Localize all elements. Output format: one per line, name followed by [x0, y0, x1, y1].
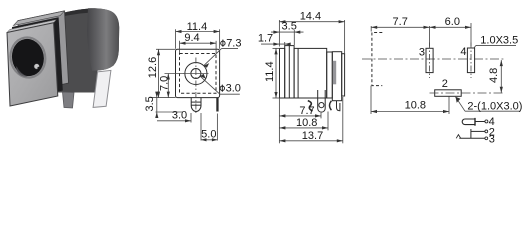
svg-text:7.3: 7.3 — [226, 37, 241, 49]
dim 10.8 side — [279, 112, 328, 131]
dim 12.6 — [147, 49, 175, 97]
svg-text:6.0: 6.0 — [445, 16, 460, 28]
dim 11.4 side — [264, 48, 279, 98]
dim 7.7 side — [279, 105, 321, 119]
svg-text:7.7: 7.7 — [299, 105, 314, 117]
3D photo: gap shadow plate — [12, 17, 63, 100]
3D photo: hole inner reflection — [16, 66, 28, 77]
svg-text:1.0X3.5: 1.0X3.5 — [480, 34, 518, 46]
side bottom extension line — [278, 98, 280, 143]
dim 7.0 — [159, 74, 184, 98]
dim 14.4 — [279, 10, 344, 53]
3D photo: flange top face strip — [13, 11, 64, 26]
side step block — [327, 52, 333, 98]
label 2-(1.0X3.0) — [456, 97, 523, 113]
dim 11.4 — [176, 21, 220, 49]
dim 9.4 — [180, 32, 217, 53]
svg-text:3.0: 3.0 — [226, 83, 241, 95]
svg-text:3.0: 3.0 — [172, 110, 187, 122]
3D photo: flange front plate — [7, 23, 58, 106]
side main body — [294, 48, 327, 98]
svg-text:4: 4 — [460, 46, 466, 58]
svg-text:3: 3 — [419, 47, 425, 59]
svg-text:1.7: 1.7 — [258, 33, 273, 45]
dim 7.7 bottom — [371, 16, 429, 46]
dim 1.7 — [258, 33, 291, 48]
svg-text:7.7: 7.7 — [393, 16, 408, 28]
pin 2 contact — [471, 126, 495, 138]
svg-text:10.8: 10.8 — [296, 117, 317, 129]
svg-text:7.0: 7.0 — [159, 76, 171, 91]
svg-text:3.5: 3.5 — [144, 96, 156, 111]
dim 5.0 — [201, 113, 217, 141]
3D photo: barrel shading — [87, 8, 119, 70]
svg-text:13.7: 13.7 — [302, 130, 323, 142]
front body outline — [176, 49, 220, 97]
front inner dashed body — [180, 54, 217, 94]
side small curl — [330, 101, 332, 110]
pin 3 switch — [456, 133, 495, 145]
svg-text:9.4: 9.4 — [184, 32, 199, 44]
pin 4 plug barrel — [462, 116, 495, 128]
svg-text:14.4: 14.4 — [300, 10, 321, 22]
3D photo: white solder pin — [93, 70, 111, 107]
side gray pin insert — [333, 61, 336, 85]
svg-text:11.4: 11.4 — [264, 61, 276, 82]
side bent tab curl — [308, 101, 313, 111]
dim 3.5 — [144, 92, 183, 118]
dim 3.0 pin width — [157, 110, 191, 123]
slot pin 3 — [419, 43, 433, 79]
3D photo: connector body — [20, 8, 119, 92]
side back block — [332, 52, 341, 101]
side front pin with hole — [318, 90, 326, 112]
3D photo: jack hole — [7, 35, 48, 81]
crosshair centerlines — [184, 58, 209, 114]
center pin circle — [191, 69, 201, 79]
slot pin 2 — [430, 78, 504, 97]
side back pin plate — [342, 54, 345, 96]
3D photo: body top face — [20, 8, 105, 26]
svg-text:12.6: 12.6 — [147, 57, 159, 78]
side bushing — [280, 48, 285, 98]
horizontal centerline — [362, 58, 503, 60]
3D photo: center pin tip — [34, 64, 40, 70]
dim 13.7 — [279, 97, 342, 143]
label dia 7.3 — [204, 37, 242, 67]
front center pin below — [191, 98, 201, 112]
side back hook pin — [337, 101, 340, 111]
slot pin 4 — [460, 43, 474, 79]
svg-text:4.8: 4.8 — [488, 68, 500, 83]
3D photo: plate top face — [7, 20, 56, 33]
svg-text:2: 2 — [442, 78, 448, 90]
3D photo: flange plate behind — [18, 11, 69, 94]
svg-text:5.0: 5.0 — [201, 128, 216, 140]
barrel circle — [185, 62, 207, 84]
label 1.0X3.5 — [474, 34, 518, 48]
3D photo: middle dark pin — [63, 92, 75, 108]
label dia 3.0 — [200, 74, 241, 95]
dashed body outline bracket — [372, 33, 382, 86]
dim 6.0 — [430, 16, 472, 46]
svg-text:2-(1.0X3.0): 2-(1.0X3.0) — [467, 100, 522, 112]
front right pin — [216, 98, 218, 112]
dim 4.8 — [488, 60, 503, 93]
svg-text:3.5: 3.5 — [282, 21, 297, 33]
svg-text:10.8: 10.8 — [405, 100, 426, 112]
dim 10.8 bottom — [371, 86, 449, 114]
dim 3.5 side — [271, 21, 304, 45]
svg-text:3: 3 — [489, 133, 495, 145]
side flange — [285, 46, 294, 98]
